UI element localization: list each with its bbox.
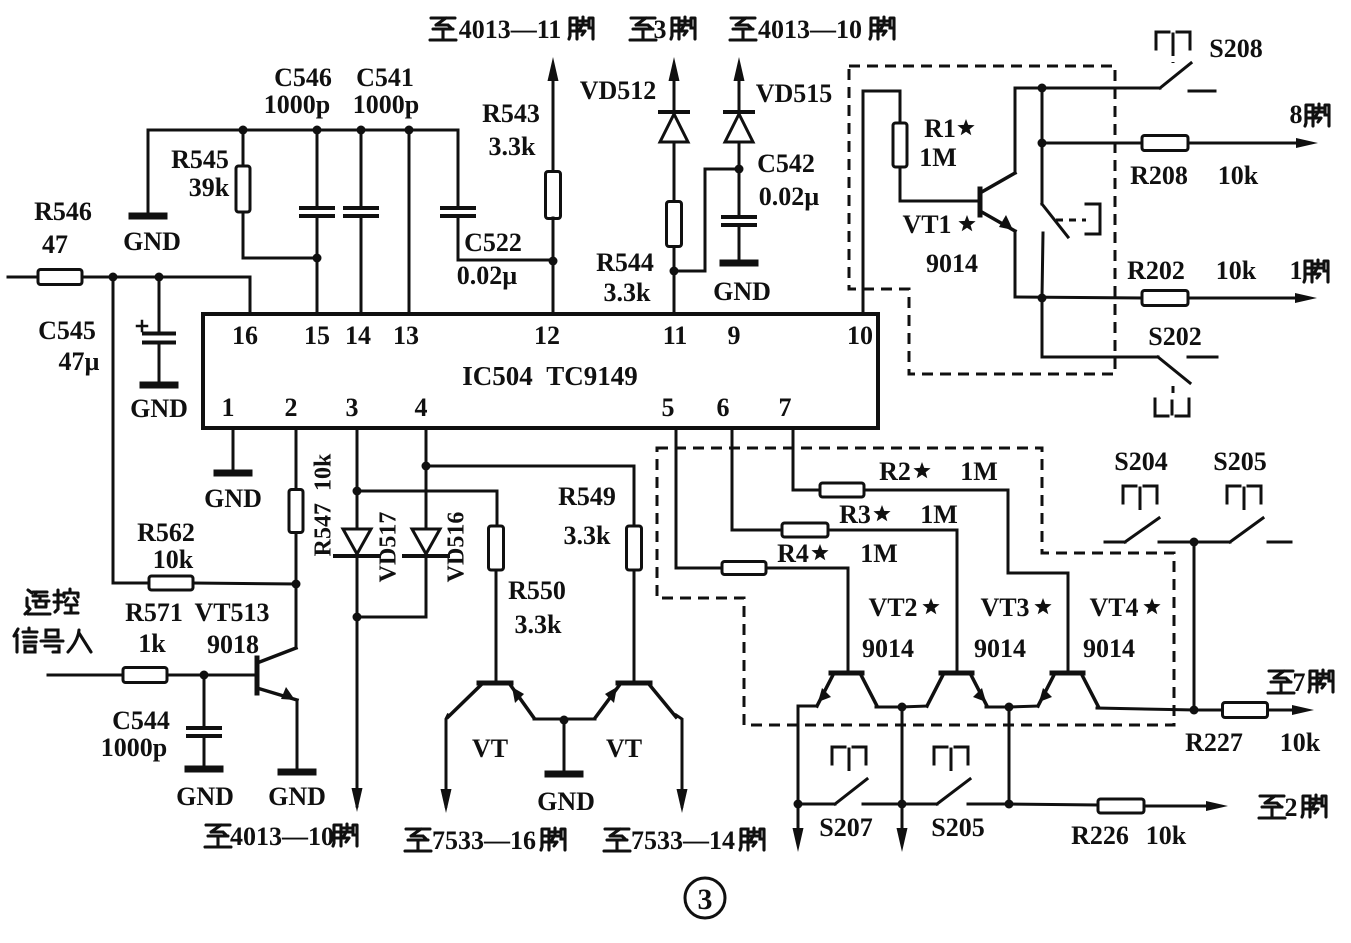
node junction VT pair emitters bbox=[560, 716, 569, 725]
wire branch to R208 bbox=[1041, 88, 1044, 143]
svg-text:R545: R545 bbox=[171, 145, 229, 174]
resistor R546 bbox=[8, 276, 38, 279]
svg-text:15: 15 bbox=[304, 321, 330, 350]
svg-text:GND: GND bbox=[123, 227, 181, 256]
wire S202 drop bbox=[1042, 298, 1158, 357]
svg-text:R208: R208 bbox=[1130, 161, 1188, 190]
wire pin4 to R549 bbox=[426, 466, 634, 526]
svg-text:S202: S202 bbox=[1148, 322, 1201, 351]
label to 4013-10 pin (bottom) bbox=[205, 825, 231, 847]
svg-text:R544: R544 bbox=[596, 248, 654, 277]
svg-text:0.02µ: 0.02µ bbox=[759, 182, 820, 211]
wire VT2 leg arrow bbox=[797, 804, 800, 834]
ground VT pair bbox=[563, 720, 566, 771]
ground pin 1 bbox=[217, 470, 249, 477]
svg-text:1M: 1M bbox=[919, 143, 957, 172]
svg-text:VT2: VT2 bbox=[868, 593, 917, 622]
wire pin 4 down bbox=[425, 428, 428, 466]
node junction VD517-VD516 bbox=[353, 613, 362, 622]
capacitor C522 bbox=[457, 130, 460, 207]
svg-text:R549: R549 bbox=[558, 482, 616, 511]
wire pin 10 up into dashed box bbox=[863, 91, 900, 314]
svg-text:1k: 1k bbox=[138, 629, 166, 658]
svg-text:VD515: VD515 bbox=[756, 79, 833, 108]
svg-text:3: 3 bbox=[346, 393, 359, 422]
transistor VT right bbox=[618, 681, 650, 686]
svg-text:GND: GND bbox=[130, 394, 188, 423]
svg-text:R547 10k: R547 10k bbox=[311, 453, 337, 556]
switch S205 bottom bbox=[934, 747, 947, 764]
node junction VT2-VT3 bbox=[898, 703, 907, 712]
transistor VT left bbox=[479, 681, 511, 686]
svg-text:GND: GND bbox=[537, 787, 595, 816]
svg-text:VD517: VD517 bbox=[376, 512, 402, 583]
svg-text:3.3k: 3.3k bbox=[564, 521, 612, 550]
wire R1 to VT1 base bbox=[900, 200, 978, 203]
wire top bus from GND to C522 drop bbox=[148, 129, 458, 132]
svg-text:9018: 9018 bbox=[207, 630, 259, 659]
wire S204 to S205 bbox=[1159, 541, 1230, 544]
wire S204-S205 node down to R227 rail bbox=[1193, 542, 1196, 710]
svg-text:1: 1 bbox=[1290, 256, 1303, 285]
resistor R1 bbox=[893, 123, 907, 167]
label to 4013-10 pin (top) bbox=[730, 18, 756, 40]
wire S205 node to R226 bbox=[1009, 804, 1098, 805]
svg-text:R550: R550 bbox=[508, 576, 566, 605]
capacitor C542 bbox=[738, 169, 741, 216]
svg-text:C542: C542 bbox=[757, 149, 815, 178]
capacitor C546 bbox=[316, 130, 319, 207]
svg-text:7: 7 bbox=[779, 393, 792, 422]
svg-text:R562: R562 bbox=[137, 518, 195, 547]
node junction R546-C545 feed bbox=[109, 273, 118, 282]
svg-text:6: 6 bbox=[717, 393, 730, 422]
wire collector rail to S208 bbox=[1015, 87, 1160, 90]
wire R546 node down to R562 bbox=[113, 277, 149, 583]
svg-text:13: 13 bbox=[393, 321, 419, 350]
ground of C542 bbox=[723, 260, 755, 267]
wire VT-left leg to 7533-16 bbox=[446, 715, 448, 790]
svg-text:R4: R4 bbox=[777, 539, 809, 568]
capacitor C545 electrolytic bbox=[158, 277, 161, 330]
svg-text:10k: 10k bbox=[1146, 821, 1187, 850]
op-amp U1 IC504 TC9149 box bbox=[203, 314, 878, 428]
node junction bus-pin13 bbox=[405, 126, 414, 135]
svg-text:VT513: VT513 bbox=[194, 598, 269, 627]
switch S202 bbox=[1158, 357, 1190, 383]
resistor R544 bbox=[667, 202, 682, 247]
svg-text:9014: 9014 bbox=[1083, 634, 1135, 663]
svg-text:1M: 1M bbox=[960, 457, 998, 486]
svg-text:2: 2 bbox=[285, 393, 298, 422]
transistor VT3 9014 bbox=[941, 671, 972, 676]
svg-text:10k: 10k bbox=[153, 545, 194, 574]
node junction VD515-C542 bbox=[735, 165, 744, 174]
dashed box around VT1 bbox=[849, 66, 1115, 374]
svg-text:VT3: VT3 bbox=[980, 593, 1029, 622]
svg-text:4013—10: 4013—10 bbox=[758, 15, 862, 44]
svg-text:S204: S204 bbox=[1114, 447, 1167, 476]
svg-text:4: 4 bbox=[415, 393, 428, 422]
wire arrow to 4013-10 bbox=[734, 57, 745, 81]
resistor R547 bbox=[289, 490, 303, 533]
svg-text:1000p: 1000p bbox=[101, 733, 167, 762]
svg-text:9014: 9014 bbox=[926, 249, 978, 278]
svg-text:1M: 1M bbox=[920, 500, 958, 529]
wire pin 6 to R3 bbox=[732, 428, 782, 530]
svg-text:S205: S205 bbox=[931, 813, 984, 842]
svg-text:R543: R543 bbox=[482, 99, 540, 128]
svg-text:GND: GND bbox=[176, 782, 234, 811]
svg-text:C544: C544 bbox=[112, 706, 170, 735]
node junction bus-R545 bbox=[239, 126, 248, 135]
resistor R227 bbox=[1194, 709, 1223, 712]
label to 7 pin bbox=[1268, 671, 1294, 693]
svg-text:1000p: 1000p bbox=[353, 90, 419, 119]
svg-text:3: 3 bbox=[698, 883, 713, 916]
resistor R226 bbox=[1098, 799, 1144, 813]
wire VT4 junction down bbox=[1008, 707, 1011, 804]
svg-text:VD512: VD512 bbox=[580, 76, 657, 105]
label to 4013-11 pin bbox=[430, 18, 456, 40]
node junction C522-pin12 bbox=[549, 257, 558, 266]
svg-text:R2: R2 bbox=[879, 457, 911, 486]
svg-text:R227: R227 bbox=[1185, 728, 1243, 757]
wire arrow to 4013-11 bbox=[548, 57, 559, 81]
switch S205 top bbox=[1227, 486, 1240, 503]
wire VT3 junction down bbox=[901, 707, 904, 804]
switch gang link upper bbox=[1041, 143, 1044, 204]
wire pin 5 to R4 bbox=[676, 428, 722, 568]
wire pin 2 down bbox=[295, 428, 298, 490]
node junction emitter-S202 rail bbox=[1038, 294, 1047, 303]
svg-text:12: 12 bbox=[534, 321, 560, 350]
svg-text:C546: C546 bbox=[274, 63, 332, 92]
svg-text:5: 5 bbox=[662, 393, 675, 422]
wire VT-right leg to 7533-14 bbox=[676, 715, 682, 790]
svg-text:10k: 10k bbox=[1218, 161, 1259, 190]
svg-text:VT: VT bbox=[606, 734, 642, 763]
svg-text:0.02µ: 0.02µ bbox=[457, 261, 518, 290]
svg-text:3: 3 bbox=[654, 15, 667, 44]
label to 7533-14 pin bbox=[604, 829, 630, 851]
wire emitter rail to R202 bbox=[1015, 297, 1142, 298]
svg-text:4013—11: 4013—11 bbox=[459, 15, 562, 44]
svg-text:7: 7 bbox=[1293, 668, 1306, 697]
resistor R562 bbox=[149, 576, 193, 590]
ground of C545 bbox=[143, 382, 175, 389]
resistor R4 bbox=[722, 562, 766, 575]
svg-text:47µ: 47µ bbox=[59, 347, 100, 376]
resistor R571 bbox=[48, 674, 123, 677]
svg-text:9: 9 bbox=[728, 321, 741, 350]
ground VT513 emitter bbox=[281, 769, 313, 776]
svg-text:GND: GND bbox=[268, 782, 326, 811]
wire bus to pin 13 bbox=[408, 130, 411, 314]
svg-text:10k: 10k bbox=[1280, 728, 1321, 757]
diode VD517 bbox=[356, 491, 359, 529]
resistor R3 bbox=[782, 523, 828, 537]
svg-text:39k: 39k bbox=[189, 173, 230, 202]
svg-text:7533—14: 7533—14 bbox=[631, 826, 735, 855]
svg-text:GND: GND bbox=[713, 277, 771, 306]
capacitor C541 bbox=[360, 130, 363, 207]
svg-text:R226: R226 bbox=[1071, 821, 1129, 850]
label to 7533-16 pin bbox=[405, 829, 431, 851]
svg-text:3.3k: 3.3k bbox=[515, 610, 563, 639]
label to 2 pin bbox=[1259, 796, 1285, 818]
wire pin 7 to R2 bbox=[793, 428, 820, 490]
svg-text:1M: 1M bbox=[860, 539, 898, 568]
svg-text:GND: GND bbox=[204, 484, 262, 513]
capacitor C544 bbox=[203, 675, 206, 727]
node junction R547-R562-VT513 bbox=[292, 580, 301, 589]
wire R545 bottom to pin15 line bbox=[243, 257, 317, 260]
switch S207 bbox=[832, 747, 845, 764]
svg-text:R571: R571 bbox=[125, 598, 183, 627]
svg-text:47: 47 bbox=[42, 230, 68, 259]
node junction R544-C542 link bbox=[670, 267, 679, 276]
svg-text:11: 11 bbox=[663, 321, 688, 350]
resistor R202 bbox=[1142, 291, 1188, 306]
svg-text:VT: VT bbox=[472, 734, 508, 763]
dashed box around VT2 VT3 VT4 bbox=[657, 448, 1174, 725]
svg-text:R3: R3 bbox=[839, 500, 871, 529]
svg-text:S205: S205 bbox=[1213, 447, 1266, 476]
svg-text:C541: C541 bbox=[356, 63, 414, 92]
svg-text:4013—10: 4013—10 bbox=[230, 822, 334, 851]
label to 3 pin bbox=[630, 18, 656, 40]
wire VT2 left leg down bbox=[797, 706, 800, 804]
svg-text:IC504 TC9149: IC504 TC9149 bbox=[462, 361, 638, 391]
svg-text:7533—16: 7533—16 bbox=[432, 826, 536, 855]
svg-text:2: 2 bbox=[1285, 793, 1298, 822]
wire pin3 line to 4013-10 arrow bbox=[356, 617, 359, 790]
node junction bus-C541 bbox=[357, 126, 366, 135]
resistor R550 bbox=[489, 526, 504, 570]
wire R544 to C542 link bbox=[674, 169, 739, 271]
switch S208 bbox=[1160, 63, 1191, 88]
node junction bus-C546 bbox=[313, 126, 322, 135]
node junction R571-C544-base bbox=[200, 671, 209, 680]
svg-text:8: 8 bbox=[1290, 100, 1303, 129]
svg-text:R202: R202 bbox=[1127, 256, 1185, 285]
svg-text:S207: S207 bbox=[819, 813, 872, 842]
wire pin 1 to ground bbox=[232, 428, 235, 470]
diode VD512 bbox=[660, 110, 688, 114]
svg-text:VT1: VT1 bbox=[902, 210, 951, 239]
figure number 3 bbox=[685, 878, 725, 918]
svg-text:16: 16 bbox=[232, 321, 258, 350]
svg-text:3.3k: 3.3k bbox=[489, 132, 537, 161]
diode VD515 bbox=[725, 110, 753, 114]
resistor R545 bbox=[242, 130, 245, 166]
transistor VT2 9014 bbox=[831, 671, 862, 676]
node junction VT3-VT4 bbox=[1005, 703, 1014, 712]
diode VD516 bbox=[425, 466, 428, 529]
resistor R208 bbox=[1142, 136, 1188, 151]
node junction R546-C545 bbox=[155, 273, 164, 282]
svg-text:14: 14 bbox=[345, 321, 371, 350]
svg-text:10k: 10k bbox=[1216, 256, 1257, 285]
svg-text:C522: C522 bbox=[464, 228, 522, 257]
svg-text:1: 1 bbox=[222, 393, 235, 422]
svg-text:VD516: VD516 bbox=[444, 512, 470, 583]
svg-text:1000p: 1000p bbox=[264, 90, 330, 119]
node junction collector-S208 rail bbox=[1038, 84, 1047, 93]
ground C544 bbox=[188, 766, 220, 773]
switch S204 bbox=[1123, 486, 1136, 503]
wire GND stem of top bus bbox=[147, 130, 150, 213]
svg-text:S208: S208 bbox=[1209, 34, 1262, 63]
wire pin3 node to R550 bbox=[357, 491, 497, 526]
wire arrow to 3 pin bbox=[669, 57, 680, 81]
transistor VT513 9018 bbox=[255, 658, 260, 693]
wire VT3 leg arrow bbox=[901, 804, 904, 834]
resistor R543 bbox=[546, 172, 561, 219]
svg-text:R546: R546 bbox=[34, 197, 92, 226]
svg-text:R1: R1 bbox=[924, 114, 956, 143]
svg-text:9014: 9014 bbox=[862, 634, 914, 663]
wire pin16 drop bbox=[249, 277, 252, 314]
resistor R549 bbox=[627, 526, 642, 570]
svg-text:9014: 9014 bbox=[974, 634, 1026, 663]
transistor VT4 9014 bbox=[1052, 671, 1083, 676]
ground top-left (bus) bbox=[132, 213, 164, 220]
svg-text:3.3k: 3.3k bbox=[604, 278, 652, 307]
transistor VT1 9014 bbox=[978, 189, 983, 215]
wire pin 3 down bbox=[356, 428, 359, 491]
svg-text:C545: C545 bbox=[38, 316, 96, 345]
svg-text:10: 10 bbox=[847, 321, 873, 350]
resistor R2 bbox=[820, 483, 864, 497]
svg-text:VT4: VT4 bbox=[1089, 593, 1138, 622]
label remote control signal input bbox=[25, 590, 50, 614]
